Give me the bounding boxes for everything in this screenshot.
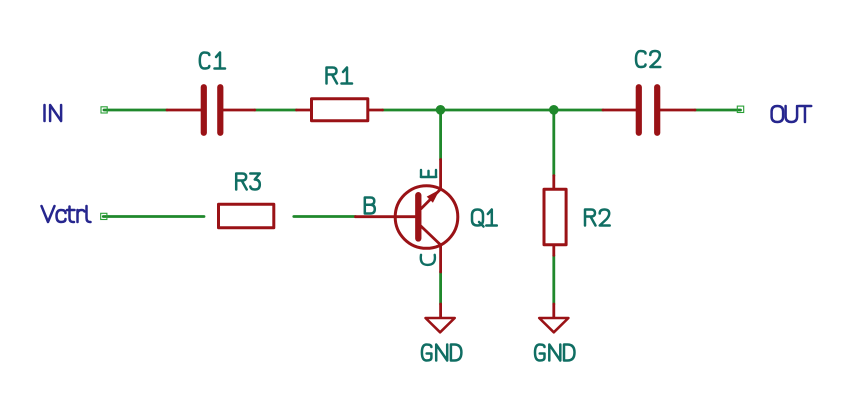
- pin C2 left: [603, 109, 636, 112]
- net label Vctrl: [42, 206, 91, 222]
- reference C2: [636, 51, 660, 67]
- pin R2 bottom: [552, 246, 555, 255]
- Vctrl wire-end square: [101, 213, 107, 219]
- reference Q1: [472, 210, 497, 227]
- pin Q1 emitter: [439, 160, 442, 190]
- pin C2 right: [660, 109, 695, 112]
- pin GND1 stub: [439, 304, 442, 318]
- power label GND2: [535, 345, 575, 361]
- wire R1 to C2 through junctions: [383, 109, 604, 112]
- pin name E (rotated): [421, 170, 437, 177]
- pin C1 left: [167, 109, 201, 112]
- net label OUT: [772, 106, 812, 122]
- pin C1 right: [223, 109, 255, 112]
- wire R2 to GND: [552, 255, 555, 304]
- wire C2 to OUT: [695, 109, 741, 112]
- wire IN to C1: [104, 109, 167, 112]
- reference R3: [236, 174, 260, 190]
- pin Q1 collector: [439, 245, 442, 272]
- resistor R3: [219, 204, 274, 228]
- wire R3 to Q1 base: [294, 215, 356, 218]
- node A junction dot: [436, 105, 446, 115]
- resistor R2: [544, 189, 566, 245]
- node B junction dot: [549, 105, 559, 115]
- pin R1 left: [297, 109, 311, 112]
- capacitor C1: [204, 87, 221, 133]
- ground GND2: [539, 318, 568, 332]
- pin name B: [365, 198, 375, 214]
- pin R1 right: [369, 109, 382, 112]
- wire junction A down to Q1 emitter: [439, 110, 442, 160]
- IN wire-end square: [101, 107, 107, 113]
- transistor Q1: [395, 186, 458, 249]
- wire Vctrl to R3: [103, 215, 204, 218]
- reference R1: [327, 68, 353, 84]
- net label IN: [45, 105, 62, 121]
- wire junction B down to R2: [552, 110, 555, 176]
- pin R2 top: [552, 176, 555, 188]
- ground GND1: [426, 318, 455, 332]
- pin GND2 stub: [552, 304, 555, 318]
- wire C1 to R1: [255, 109, 297, 112]
- resistor R1: [312, 99, 368, 121]
- reference R2: [585, 210, 610, 226]
- reference C1: [200, 53, 225, 69]
- pin Q1 base: [356, 215, 416, 218]
- capacitor C2: [639, 87, 657, 133]
- power label GND1: [422, 345, 462, 361]
- pin name C (rotated): [421, 255, 435, 265]
- OUT wire-end square: [737, 106, 743, 112]
- wire Q1 collector to GND: [439, 272, 442, 304]
